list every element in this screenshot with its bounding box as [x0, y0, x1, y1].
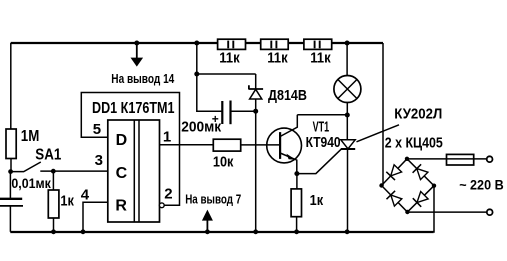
node lamp-thyristor-collector: [345, 113, 350, 118]
wire pin4 to ground: [83, 202, 108, 232]
node cap-zener junction: [253, 109, 258, 114]
svg-text:DD1 К176ТМ1: DD1 К176ТМ1: [92, 100, 175, 117]
IC DD1 feedback loop wire pin2 to pin5: [81, 93, 179, 206]
svg-text:1к: 1к: [310, 192, 324, 209]
resistor R 11k #1: [218, 39, 246, 49]
resistor 1k right: [291, 189, 301, 217]
diode VD top-left: [391, 165, 402, 176]
resistor 10k: [213, 139, 240, 151]
node rail branch x197: [194, 41, 199, 46]
svg-text:КТ940: КТ940: [306, 134, 341, 151]
svg-text:Д814В: Д814В: [268, 87, 307, 104]
IC internal divider lines: [134, 120, 139, 222]
wire R1k to ground rail: [53, 218, 55, 232]
node emitter junction: [294, 171, 299, 176]
wire arrow shaft pin14: [136, 44, 138, 61]
node bridge top: [405, 157, 409, 161]
wire rail to bridge left corner: [382, 43, 384, 186]
transistor VT1 circle: [267, 128, 302, 163]
wire capacitor to ground rail: [9, 207, 11, 232]
svg-text:На вывод 7: На вывод 7: [185, 191, 241, 206]
terminal top: [487, 156, 493, 162]
transistor collector: [280, 115, 297, 137]
lamp X: [338, 80, 357, 99]
wire to R 1k: [52, 171, 54, 190]
node R1k-rail: [51, 229, 56, 234]
svg-text:1к: 1к: [60, 192, 74, 209]
svg-text:+: +: [212, 112, 219, 126]
node R1k right-rail: [294, 229, 299, 234]
resistor 1k left: [48, 190, 59, 218]
svg-text:R: R: [115, 198, 127, 215]
capacitor 0,01mk top plate: [0, 198, 22, 200]
wire pin3 net: [40, 170, 108, 172]
node zener-rail: [253, 229, 258, 234]
svg-text:10к: 10к: [213, 155, 234, 171]
wire thyristor cathode to rail: [347, 149, 349, 232]
leader line KU202L: [357, 125, 400, 142]
terminal bottom: [487, 209, 493, 215]
wire lamp top: [346, 43, 348, 76]
thyristor VS1 triangle: [341, 140, 355, 149]
node rail to pin14 arrow: [134, 41, 139, 46]
op: IC DD1 body: [108, 120, 160, 222]
wire 10k to transistor base: [241, 144, 280, 146]
diode VD bottom-right: [417, 192, 428, 203]
resistor R 11k #3: [304, 39, 332, 49]
capacitor 200mk right plate: [229, 101, 231, 125]
node arrow7-rail: [205, 229, 210, 234]
zener diode D814V triangle: [250, 89, 262, 99]
wire emitter to R1k: [296, 174, 298, 189]
wire gate from emitter node to thyristor: [297, 149, 341, 174]
svg-text:~ 220 В: ~ 220 В: [459, 176, 504, 192]
transistor emitter: [280, 153, 297, 174]
node switch common: [8, 169, 13, 174]
node rail-lamp: [345, 41, 350, 46]
wire top rail: [11, 42, 383, 44]
wire bottom rail: [10, 231, 433, 233]
node pin4-rail: [81, 229, 86, 234]
bridge diamond edges: [382, 159, 435, 212]
wire switch to capacitor: [9, 172, 11, 198]
svg-text:КУ202Л: КУ202Л: [394, 105, 442, 122]
emitter arrow: [286, 154, 295, 160]
pin 2 inversion bubble: [159, 203, 164, 208]
capacitor 0,01mk bottom plate: [0, 205, 23, 207]
wire bridge top through fuse to terminal: [407, 158, 487, 160]
svg-text:2: 2: [164, 185, 172, 202]
wire branch down: [196, 43, 198, 74]
wire lamp bottom: [346, 102, 348, 115]
wire 1M bottom to switch: [10, 159, 12, 172]
wire bridge right corner to rail: [433, 186, 435, 232]
node corner T junction: [194, 72, 199, 77]
arrow head pin7: [202, 210, 213, 221]
thyristor cathode bar: [341, 148, 355, 150]
svg-text:На вывод 14: На вывод 14: [111, 71, 175, 86]
wire down to cap left: [197, 74, 223, 111]
svg-text:D: D: [116, 132, 128, 149]
wire R1k right to rail: [296, 217, 298, 232]
wire cap right to zener line: [231, 110, 256, 112]
transistor base bar: [279, 132, 281, 159]
resistor 1M: [6, 129, 16, 159]
wire T to zener top: [197, 73, 256, 75]
svg-text:11к: 11к: [310, 51, 331, 67]
diode VD bottom-left: [391, 195, 402, 206]
wire thyristor anode: [346, 115, 348, 140]
node bridge left: [379, 183, 383, 187]
node bridge bottom: [405, 210, 409, 214]
node thyristor-rail: [345, 229, 350, 234]
lamp HL1 circle: [334, 76, 361, 103]
wire collector net: [297, 114, 347, 116]
svg-text:11к: 11к: [267, 51, 288, 67]
svg-text:5: 5: [93, 121, 101, 138]
svg-text:1M: 1M: [21, 128, 40, 145]
zener diode D814V cathode bar: [249, 85, 263, 89]
wire bridge bottom to terminal: [407, 211, 486, 213]
node junction C1/R2: [51, 169, 56, 174]
svg-text:2 х КЦ405: 2 х КЦ405: [385, 135, 443, 152]
wire pin1 output: [160, 144, 214, 146]
arrow head pin14: [131, 58, 144, 67]
svg-text:11к: 11к: [219, 51, 240, 67]
wire left vertical from rail to R1M: [10, 43, 12, 129]
switch SA1 arm: [11, 162, 41, 172]
svg-text:C: C: [116, 165, 128, 182]
svg-text:0,01мк: 0,01мк: [11, 176, 51, 191]
svg-text:1: 1: [163, 128, 171, 145]
svg-text:SA1: SA1: [35, 147, 61, 164]
fuse FU1 body: [447, 154, 474, 165]
svg-text:4: 4: [81, 187, 90, 204]
svg-text:3: 3: [95, 152, 103, 169]
capacitor 200mk left plate: [221, 101, 223, 124]
wire arrow shaft pin7: [206, 213, 208, 232]
diode VD top-right: [417, 169, 428, 180]
node bridge right: [432, 184, 436, 188]
resistor R 11k #2: [261, 39, 289, 49]
wire zener vertical to ground: [255, 74, 257, 232]
